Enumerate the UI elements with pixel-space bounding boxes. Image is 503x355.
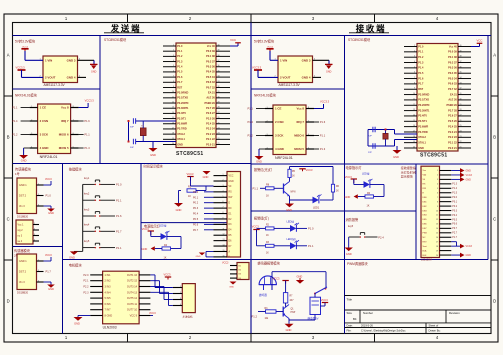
svg-text:PSEN 29: PSEN 29 — [447, 104, 458, 107]
svg-text:MOSI 5: MOSI 5 — [59, 146, 69, 150]
svg-text:P0.2 37: P0.2 37 — [206, 60, 215, 63]
svg-text:GND 1: GND 1 — [19, 184, 27, 187]
svg-text:P2.4 25: P2.4 25 — [206, 123, 215, 126]
svg-text:30: 30 — [460, 98, 462, 100]
svg-text:LED绿: LED绿 — [287, 220, 295, 224]
svg-text:P0.0: P0.0 — [193, 191, 199, 194]
svg-text:P1.1: P1.1 — [84, 133, 90, 137]
svg-text:DST 2: DST 2 — [19, 195, 27, 198]
svg-text:VCC3: VCC3 — [466, 245, 473, 248]
svg-text:P3.5/T1: P3.5/T1 — [418, 120, 427, 123]
svg-text:P0.4: P0.4 — [193, 213, 199, 216]
svg-text:NC: NC — [423, 237, 427, 239]
svg-text:VCC: VCC — [229, 175, 234, 177]
svg-text:1 CE: 1 CE — [275, 107, 281, 111]
svg-text:P1.7: P1.7 — [177, 81, 183, 84]
svg-text:VCC3: VCC3 — [466, 174, 473, 177]
svg-text:P2.7 28: P2.7 28 — [206, 107, 215, 110]
svg-text:OUT7 10: OUT7 10 — [127, 309, 138, 312]
svg-text:P0.5 34: P0.5 34 — [448, 77, 457, 80]
svg-text:2 VOUT: 2 VOUT — [280, 76, 291, 80]
svg-text:XTAL2: XTAL2 — [418, 136, 426, 139]
svg-text:P1.6: P1.6 — [84, 119, 90, 123]
svg-text:13: 13 — [413, 109, 415, 111]
svg-text:9: 9 — [223, 217, 224, 219]
svg-text:22P: 22P — [368, 136, 372, 138]
svg-text:NRF24L01模块: NRF24L01模块 — [254, 93, 277, 98]
svg-text:B: B — [7, 135, 10, 140]
svg-text:GND: GND — [345, 195, 351, 199]
svg-text:P1.0: P1.0 — [116, 183, 122, 187]
svg-text:D: D — [7, 299, 10, 304]
svg-text:29: 29 — [218, 102, 220, 104]
svg-text:C: C — [493, 217, 496, 222]
svg-text:13: 13 — [172, 107, 174, 109]
svg-text:34: 34 — [460, 77, 462, 79]
svg-text:18: 18 — [436, 246, 438, 248]
svg-text:19: 19 — [436, 250, 438, 252]
svg-text:40: 40 — [460, 45, 462, 47]
svg-text:1号: 1号 — [15, 171, 20, 176]
svg-text:Vss: Vss — [423, 170, 426, 172]
svg-text:13: 13 — [223, 239, 225, 241]
svg-text:17: 17 — [413, 130, 415, 132]
svg-text:19: 19 — [172, 138, 174, 140]
svg-text:7: 7 — [414, 77, 415, 79]
svg-text:P0.3: P0.3 — [452, 210, 457, 212]
svg-text:P3.4/T0: P3.4/T0 — [418, 115, 427, 118]
svg-text:VCC3.3: VCC3.3 — [16, 65, 26, 69]
svg-text:27: 27 — [460, 114, 462, 116]
svg-text:11: 11 — [413, 98, 415, 100]
svg-text:5: 5 — [437, 188, 438, 190]
svg-text:P0.7 32: P0.7 32 — [206, 86, 215, 89]
svg-text:24: 24 — [460, 130, 462, 132]
svg-text:P3.7/RD: P3.7/RD — [177, 128, 187, 131]
svg-text:Vcc 8: Vcc 8 — [296, 107, 304, 111]
svg-text:P0.0 39: P0.0 39 — [448, 51, 457, 54]
svg-text:P0.3 36: P0.3 36 — [206, 66, 215, 69]
svg-text:3: 3 — [38, 204, 39, 206]
svg-text:P1.1: P1.1 — [12, 106, 18, 110]
svg-text:16: 16 — [223, 255, 225, 257]
svg-text:时间显示模块: 时间显示模块 — [144, 164, 164, 169]
svg-text:16: 16 — [172, 122, 174, 124]
svg-text:P3.3/INT1: P3.3/INT1 — [177, 107, 189, 110]
svg-text:P3.1/TXD: P3.1/TXD — [418, 99, 429, 102]
svg-text:RST: RST — [418, 88, 423, 91]
svg-text:GND: GND — [203, 175, 209, 179]
svg-text:电源指示灯: 电源指示灯 — [346, 165, 363, 170]
svg-text:P0.2 37: P0.2 37 — [448, 61, 457, 64]
svg-text:key5: key5 — [84, 240, 90, 243]
svg-text:GND: GND — [21, 159, 27, 163]
svg-text:P1.2: P1.2 — [177, 55, 183, 58]
svg-text:4: 4 — [173, 60, 174, 62]
svg-text:P0.1 38: P0.1 38 — [448, 56, 457, 59]
svg-text:P1.7: P1.7 — [116, 230, 122, 234]
svg-text:12: 12 — [413, 104, 415, 106]
svg-text:Vin 3: Vin 3 — [19, 281, 25, 284]
svg-text:LCD12864: LCD12864 — [421, 260, 433, 262]
svg-text:P1.3: P1.3 — [320, 147, 326, 151]
svg-text:12: 12 — [172, 102, 174, 104]
svg-text:P2.1 22: P2.1 22 — [448, 141, 457, 144]
svg-text:2 CSN: 2 CSN — [40, 119, 49, 123]
svg-text:P1.2: P1.2 — [248, 134, 254, 138]
svg-text:PSB: PSB — [423, 233, 428, 235]
svg-text:1: 1 — [38, 259, 39, 261]
svg-text:LED绿: LED绿 — [362, 172, 370, 176]
svg-text:P1.4: P1.4 — [248, 120, 254, 124]
svg-text:B4: B4 — [353, 317, 357, 321]
svg-text:P2.6 27: P2.6 27 — [448, 115, 457, 118]
svg-text:nc 3: nc 3 — [18, 235, 23, 238]
svg-text:9: 9 — [437, 206, 438, 208]
svg-text:30P: 30P — [130, 147, 134, 149]
svg-text:2: 2 — [38, 270, 39, 272]
svg-text:9: 9 — [414, 88, 415, 90]
svg-text:P3.2/INT0: P3.2/INT0 — [418, 104, 430, 107]
svg-text:XTAL2: XTAL2 — [177, 133, 185, 136]
svg-text:1 VIN: 1 VIN — [45, 58, 52, 62]
svg-text:P1.7: P1.7 — [418, 83, 424, 86]
svg-text:P1.5: P1.5 — [452, 193, 457, 195]
svg-text:GND: GND — [326, 71, 332, 74]
svg-text:P1.1: P1.1 — [116, 198, 122, 202]
svg-text:GND: GND — [466, 254, 472, 257]
svg-text:P1.1: P1.1 — [253, 186, 259, 190]
svg-text:6: 6 — [223, 201, 224, 203]
svg-text:VCC 9: VCC 9 — [130, 315, 138, 318]
svg-text:P1.5: P1.5 — [418, 72, 424, 75]
svg-text:NRF24L01: NRF24L01 — [275, 156, 293, 160]
svg-text:23: 23 — [460, 136, 462, 138]
svg-text:1K: 1K — [188, 195, 191, 198]
svg-text:3: 3 — [34, 234, 35, 236]
svg-text:OUT6 11: OUT6 11 — [127, 303, 138, 306]
svg-text:6: 6 — [437, 192, 438, 194]
svg-text:GND: GND — [196, 256, 201, 258]
svg-text:P0.4 35: P0.4 35 — [448, 72, 457, 75]
svg-text:15: 15 — [172, 117, 174, 119]
svg-text:P2.2 23: P2.2 23 — [448, 136, 457, 139]
svg-text:33: 33 — [218, 81, 220, 83]
svg-text:4 GND: 4 GND — [40, 146, 49, 150]
svg-text:4K7: 4K7 — [290, 300, 295, 302]
svg-text:GND: GND — [142, 247, 148, 251]
svg-text:BLA: BLA — [423, 249, 428, 252]
svg-text:OUT2 15: OUT2 15 — [127, 280, 138, 283]
svg-text:P0.2: P0.2 — [193, 202, 199, 205]
svg-text:P1.7: P1.7 — [452, 237, 457, 239]
svg-text:6 IN6: 6 IN6 — [105, 303, 112, 306]
svg-text:GND: GND — [286, 208, 292, 212]
svg-text:36: 36 — [218, 65, 220, 67]
svg-text:5V转3.3V模块: 5V转3.3V模块 — [15, 39, 36, 44]
svg-text:RST: RST — [423, 241, 428, 243]
svg-text:GND: GND — [48, 287, 54, 291]
svg-text:P3.5/T1: P3.5/T1 — [177, 117, 186, 120]
svg-text:24: 24 — [218, 127, 220, 129]
svg-text:Size: Size — [347, 311, 353, 315]
svg-text:P3.3/INT1: P3.3/INT1 — [418, 109, 430, 112]
svg-text:GND: GND — [69, 256, 75, 260]
svg-text:ALE 30: ALE 30 — [448, 99, 457, 102]
svg-text:P0.1: P0.1 — [193, 196, 199, 199]
svg-text:36: 36 — [460, 66, 462, 68]
svg-text:STC89C51模块: STC89C51模块 — [348, 37, 371, 42]
svg-text:P2.6 27: P2.6 27 — [206, 112, 215, 115]
svg-text:GND: GND — [466, 170, 472, 173]
svg-text:17: 17 — [172, 127, 174, 129]
svg-text:3 SCK: 3 SCK — [275, 134, 284, 138]
svg-text:P2.0: P2.0 — [452, 197, 457, 199]
svg-text:P1.3: P1.3 — [84, 146, 90, 150]
svg-text:P2.1 22: P2.1 22 — [206, 138, 215, 141]
svg-text:GND: GND — [150, 153, 156, 157]
svg-text:P2.7 28: P2.7 28 — [448, 109, 457, 112]
svg-text:GND: GND — [393, 155, 399, 159]
svg-text:1K: 1K — [367, 205, 370, 208]
svg-text:P0.3: P0.3 — [193, 207, 199, 210]
svg-text:17: 17 — [436, 241, 438, 243]
svg-text:key5: key5 — [348, 225, 354, 228]
svg-text:P3.6/WR: P3.6/WR — [177, 123, 187, 126]
svg-text:P1.1: P1.1 — [177, 50, 183, 53]
svg-text:DS18B20: DS18B20 — [17, 215, 29, 219]
svg-text:1: 1 — [414, 45, 415, 47]
svg-text:P3.0/RXD: P3.0/RXD — [418, 93, 429, 96]
svg-text:4: 4 — [34, 239, 35, 241]
svg-text:Revision: Revision — [449, 311, 460, 315]
svg-text:27: 27 — [218, 112, 220, 114]
svg-text:11: 11 — [436, 215, 438, 217]
svg-text:P1.1: P1.1 — [116, 246, 122, 250]
svg-text:GND 4: GND 4 — [302, 76, 311, 80]
svg-text:5V转3.3V模块: 5V转3.3V模块 — [254, 39, 275, 44]
svg-text:22: 22 — [218, 138, 220, 140]
svg-text:P0.7: P0.7 — [452, 228, 457, 230]
svg-text:7: 7 — [173, 76, 174, 78]
svg-text:2: 2 — [414, 50, 415, 52]
svg-text:10: 10 — [413, 93, 415, 95]
svg-text:Sheet of: Sheet of — [429, 324, 439, 328]
svg-text:Vcc 1: Vcc 1 — [18, 224, 25, 227]
svg-text:1: 1 — [180, 286, 181, 288]
svg-text:20: 20 — [172, 143, 174, 145]
svg-text:PWM调速模块: PWM调速模块 — [347, 261, 368, 266]
svg-text:GND: GND — [346, 252, 352, 256]
svg-text:2: 2 — [34, 228, 35, 230]
svg-text:10: 10 — [223, 223, 225, 225]
svg-text:2: 2 — [437, 175, 438, 177]
svg-text:GND: GND — [297, 274, 303, 278]
svg-text:VCC3: VCC3 — [149, 312, 156, 315]
svg-text:2 CSN: 2 CSN — [275, 120, 284, 124]
svg-text:P2.3 24: P2.3 24 — [448, 131, 457, 134]
svg-text:1: 1 — [173, 45, 174, 47]
svg-text:31: 31 — [218, 91, 220, 93]
svg-text:P0.7 32: P0.7 32 — [448, 88, 457, 91]
svg-text:8: 8 — [437, 201, 438, 203]
svg-text:P1.1: P1.1 — [248, 107, 254, 111]
svg-text:P2.5 26: P2.5 26 — [206, 117, 215, 120]
svg-text:37: 37 — [218, 60, 220, 62]
svg-text:Vcc 40: Vcc 40 — [207, 45, 216, 48]
svg-text:A: A — [493, 53, 496, 58]
svg-text:35: 35 — [460, 72, 462, 74]
svg-text:VCC3: VCC3 — [273, 277, 280, 281]
svg-text:蜂鸣器: 蜂鸣器 — [259, 293, 267, 297]
svg-text:7: 7 — [223, 207, 224, 209]
svg-text:18: 18 — [172, 133, 174, 135]
svg-text:P1.3: P1.3 — [177, 60, 183, 63]
svg-text:P1.6: P1.6 — [177, 76, 183, 79]
svg-text:P2.3: P2.3 — [83, 291, 89, 294]
svg-text:步进电机: 步进电机 — [183, 315, 194, 319]
svg-text:A: A — [7, 53, 10, 58]
svg-text:P0.3 36: P0.3 36 — [448, 67, 457, 70]
svg-text:GND: GND — [74, 322, 80, 326]
svg-text:1K: 1K — [266, 252, 269, 254]
svg-text:P1.6: P1.6 — [320, 120, 326, 124]
svg-text:29: 29 — [460, 104, 462, 106]
svg-text:2 VOUT: 2 VOUT — [45, 76, 56, 80]
svg-text:2019-5-26: 2019-5-26 — [361, 324, 373, 328]
svg-text:1K: 1K — [336, 191, 339, 193]
svg-text:Vcc 8: Vcc 8 — [61, 106, 69, 110]
svg-text:P1.4: P1.4 — [12, 119, 18, 123]
svg-text:Number: Number — [363, 311, 373, 315]
svg-text:ALE 30: ALE 30 — [206, 97, 215, 100]
svg-text:3: 3 — [414, 56, 415, 58]
svg-text:STC89C51模块: STC89C51模块 — [104, 37, 127, 42]
svg-text:LED绿: LED绿 — [159, 224, 167, 228]
svg-text:P0.4: P0.4 — [452, 215, 457, 217]
svg-text:15: 15 — [413, 120, 415, 122]
svg-text:1 VIN: 1 VIN — [280, 58, 287, 62]
svg-text:传感器模块: 传感器模块 — [14, 248, 31, 253]
svg-text:MISO 6: MISO 6 — [59, 133, 69, 137]
svg-text:显示模块: 显示模块 — [401, 174, 413, 179]
svg-text:1 CE: 1 CE — [40, 106, 46, 110]
svg-text:1K: 1K — [164, 257, 167, 260]
svg-text:14: 14 — [413, 114, 415, 116]
svg-text:P2.4: P2.4 — [378, 236, 384, 240]
svg-text:21: 21 — [460, 147, 462, 149]
svg-text:14: 14 — [436, 228, 438, 230]
svg-text:发送端: 发送端 — [110, 24, 142, 34]
svg-text:34: 34 — [218, 76, 220, 78]
svg-text:P0.1 38: P0.1 38 — [206, 55, 215, 58]
svg-text:IRQ 7: IRQ 7 — [61, 119, 69, 123]
svg-text:7 IN7: 7 IN7 — [105, 309, 112, 312]
svg-text:key1: key1 — [84, 177, 90, 180]
svg-text:P1.5: P1.5 — [177, 71, 183, 74]
svg-text:21: 21 — [218, 143, 220, 145]
svg-text:GND: GND — [229, 181, 234, 183]
svg-text:报警红(光)灯: 报警红(光)灯 — [254, 167, 273, 172]
svg-text:8: 8 — [414, 82, 415, 84]
svg-text:18: 18 — [413, 136, 415, 138]
svg-text:11: 11 — [223, 228, 225, 230]
svg-text:key2: key2 — [84, 193, 90, 196]
svg-text:P0.1: P0.1 — [452, 201, 457, 203]
svg-text:15: 15 — [436, 233, 438, 235]
svg-text:3 IN3: 3 IN3 — [105, 286, 112, 289]
svg-text:P2.1: P2.1 — [83, 280, 89, 283]
svg-text:P1.0: P1.0 — [46, 194, 52, 198]
svg-text:1: 1 — [38, 183, 39, 185]
svg-text:VCC3.3: VCC3.3 — [252, 65, 262, 69]
svg-text:P0.2: P0.2 — [452, 206, 457, 208]
svg-text:PSEN 29: PSEN 29 — [205, 102, 216, 105]
svg-text:NPN: NPN — [291, 192, 296, 194]
svg-text:P2.7: P2.7 — [452, 233, 457, 235]
svg-text:8: 8 — [173, 81, 174, 83]
svg-text:P1.2: P1.2 — [252, 315, 258, 319]
svg-text:MOSI 5: MOSI 5 — [294, 147, 304, 151]
svg-text:按键模块: 按键模块 — [69, 167, 83, 172]
svg-text:P2.2 23: P2.2 23 — [206, 133, 215, 136]
svg-text:P0.7: P0.7 — [193, 229, 199, 232]
svg-text:P3.6/WR: P3.6/WR — [418, 125, 428, 128]
svg-text:VCC3.3: VCC3.3 — [320, 100, 330, 104]
svg-text:P3.1/TXD: P3.1/TXD — [177, 97, 188, 100]
svg-text:8 GND: 8 GND — [105, 315, 113, 318]
svg-text:4: 4 — [180, 304, 181, 306]
svg-text:GND 3: GND 3 — [302, 58, 311, 62]
svg-text:1K: 1K — [266, 195, 269, 198]
svg-text:33: 33 — [460, 82, 462, 84]
svg-text:P1.6: P1.6 — [116, 214, 122, 218]
svg-text:2: 2 — [223, 180, 224, 182]
svg-text:19: 19 — [413, 141, 415, 143]
svg-text:P1.4: P1.4 — [177, 66, 183, 69]
svg-text:Drawn By:: Drawn By: — [429, 328, 441, 332]
svg-text:P3.0/RXD: P3.0/RXD — [177, 91, 188, 94]
svg-text:P0.6 33: P0.6 33 — [206, 81, 215, 84]
svg-text:OUT3 14: OUT3 14 — [127, 286, 138, 289]
svg-text:LED(绿): LED(绿) — [287, 237, 296, 241]
svg-text:电机模块: 电机模块 — [69, 263, 83, 268]
svg-text:STC89C51: STC89C51 — [420, 153, 448, 159]
svg-text:se 4: se 4 — [18, 240, 23, 243]
svg-text:P1.3: P1.3 — [452, 184, 457, 186]
svg-text:OUT1 16: OUT1 16 — [127, 274, 138, 277]
svg-text:8: 8 — [223, 212, 224, 214]
svg-text:5 IN5: 5 IN5 — [105, 297, 112, 300]
svg-text:BLK: BLK — [423, 255, 428, 257]
svg-text:16: 16 — [436, 237, 438, 239]
svg-text:22P: 22P — [368, 152, 372, 154]
svg-text:5: 5 — [223, 196, 224, 198]
svg-text:P2.3 24: P2.3 24 — [206, 128, 215, 131]
svg-text:key3: key3 — [84, 208, 90, 211]
svg-text:GND: GND — [176, 208, 182, 212]
svg-text:28: 28 — [218, 107, 220, 109]
svg-text:VCC3: VCC3 — [45, 254, 52, 257]
svg-text:VCC3: VCC3 — [252, 225, 259, 229]
svg-text:3: 3 — [437, 179, 438, 181]
svg-text:GND: GND — [177, 143, 183, 146]
svg-text:RST: RST — [177, 86, 182, 89]
svg-text:GND: GND — [286, 328, 292, 332]
svg-text:P0.5: P0.5 — [193, 218, 199, 221]
svg-text:5: 5 — [414, 66, 415, 68]
svg-text:23: 23 — [218, 133, 220, 135]
